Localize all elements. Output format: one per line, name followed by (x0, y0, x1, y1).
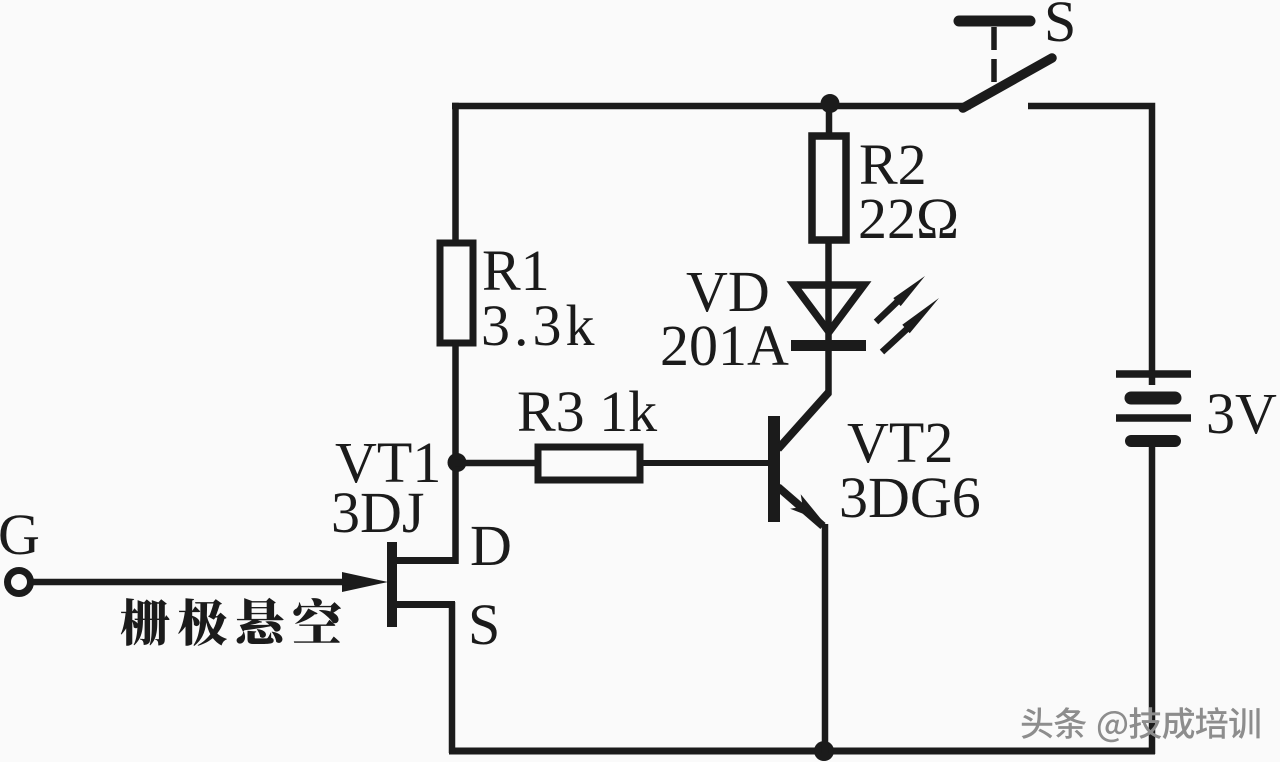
terminal G circle (8, 571, 31, 594)
svg-text:3DJ: 3DJ (331, 480, 424, 545)
svg-text:3V: 3V (1206, 381, 1277, 446)
wire left rail upper (452, 103, 459, 246)
resistor R1 (440, 243, 473, 343)
label gate floating (CJK) (121, 598, 341, 646)
junction bottom node (814, 741, 834, 761)
wire R3 to VT2 base (640, 460, 770, 466)
FET VT1 (342, 542, 456, 627)
svg-text:201A: 201A (660, 313, 789, 378)
wire left rail lower (452, 340, 459, 564)
wire R2 top (826, 103, 833, 140)
drain lead (395, 557, 456, 564)
svg-text:D: D (470, 513, 512, 578)
transistor VT2 (768, 392, 829, 526)
LED VD (791, 276, 939, 352)
wire source down (449, 602, 456, 753)
svg-text:S: S (468, 592, 500, 657)
svg-text:3DG6: 3DG6 (839, 465, 981, 530)
LED light arrow 2 (882, 328, 908, 352)
svg-text:S: S (1044, 0, 1076, 54)
svg-text:R3 1k: R3 1k (517, 379, 657, 444)
LED light arrow 1 (876, 301, 898, 322)
battery 3V (1116, 374, 1191, 441)
source lead (395, 601, 455, 608)
wire node to R3 (455, 460, 542, 467)
watermark toutiao (1022, 707, 1260, 742)
svg-text:22Ω: 22Ω (858, 186, 959, 251)
gate arrowhead (342, 572, 388, 592)
svg-text:G: G (0, 502, 40, 567)
wire collector to LED cathode (825, 241, 832, 394)
svg-text:3.3k: 3.3k (481, 293, 599, 358)
resistor R3 (538, 447, 640, 480)
resistor R2 (812, 136, 846, 240)
junction gate node (448, 453, 467, 472)
wire top rail (452, 103, 971, 110)
switch S (959, 21, 1052, 108)
wire battery to bottom rail (1149, 441, 1156, 754)
junction top node (821, 94, 840, 113)
wire bottom rail (449, 748, 1155, 755)
wire switch to right rail corner (1028, 106, 1152, 385)
wire gate lead (31, 579, 352, 586)
wire emitter to bottom rail (822, 524, 829, 753)
